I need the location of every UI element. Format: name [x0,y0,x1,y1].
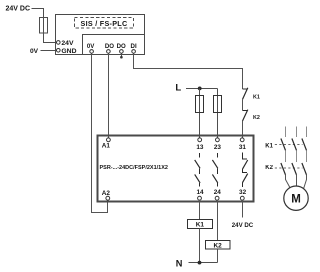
svg-text:24V DC: 24V DC [232,222,254,229]
coil K2 [206,241,231,250]
svg-text:K1: K1 [265,143,273,149]
coil K1 [188,220,213,229]
fuse F1 (24V DC feed) [40,18,48,34]
terminal DI of PLC [131,43,137,53]
wire DI to feedback chain [134,54,243,90]
wire L line [186,88,218,90]
terminal 14 [196,189,204,200]
contact K2 (NC, feedback loop) [243,110,260,138]
svg-text:DI: DI [131,43,137,50]
wire from 24V DC label to fuse [32,9,44,18]
svg-text:L: L [175,82,181,93]
wires between K1 and K2 contactor rows [285,150,287,161]
contactor K1 main contacts (3 x NO) [265,139,306,151]
three-phase line 3 [306,126,308,137]
wire 24 to coil K2 [217,200,219,241]
contactor K2 main contacts (3 x NO) [265,163,306,175]
relay contact 13-14 (two NO in series) [195,153,200,187]
fuse F3 (to terminal 23) [214,89,222,139]
PLC outer box [56,15,145,55]
svg-text:N: N [176,259,183,269]
PLC dashed box SIS / FS-PLC [75,18,134,29]
svg-text:PSR-...-24DC/FSP/2X1/1X2: PSR-...-24DC/FSP/2X1/1X2 [100,165,168,171]
wire 32 to 24V DC [242,200,244,218]
terminal A2 [102,190,111,200]
terminal A1 [102,138,111,149]
svg-text:SIS / FS-PLC: SIS / FS-PLC [81,19,128,28]
three-phase line 2 [296,126,298,137]
terminal 23 [214,138,222,151]
wire 0V to A2 [92,54,108,213]
svg-text:A2: A2 [102,190,111,197]
svg-text:K1: K1 [196,222,205,229]
wire 0V to GND terminal [41,50,57,52]
svg-text:14: 14 [196,189,204,196]
junction on N line [198,261,202,265]
svg-text:GND: GND [61,48,76,55]
three-phase line 1 [285,126,287,137]
wire coil K1 to N [199,229,201,263]
terminal 24V of PLC [57,40,74,47]
safety relay PSR box [98,136,254,202]
terminal 0V of PLC [87,43,95,53]
svg-text:24V: 24V [61,40,74,47]
terminal DO1 of PLC [105,43,114,53]
wire N line [189,262,218,264]
svg-text:0V: 0V [30,48,39,55]
svg-text:K2: K2 [213,242,222,249]
terminal 31 [239,138,247,151]
wire DO1 to A1 [108,54,110,139]
wire 14 to coil K1 [199,200,201,220]
contact K1 (NC, feedback loop) [243,88,260,111]
wires from contacts into motor [286,175,291,188]
svg-text:DO: DO [105,43,114,50]
svg-text:23: 23 [214,144,222,151]
stub below DO2 (unused output) [120,54,123,59]
svg-text:DO: DO [117,43,126,50]
svg-text:K2: K2 [253,115,260,121]
relay contact 23-24 (two NO in series) [212,153,217,187]
terminal 24 [214,189,222,200]
junction on L line [198,87,202,91]
fuse F2 (to terminal 13) [196,89,204,139]
PLC terminal-block divider [83,35,145,55]
terminal 32 [239,189,247,200]
svg-text:31: 31 [239,144,247,151]
wire coil K2 to N [217,249,219,263]
terminal DO2 of PLC [117,43,126,53]
svg-text:24: 24 [214,189,222,196]
svg-text:A1: A1 [102,142,111,149]
terminal GND of PLC [57,48,77,55]
svg-text:32: 32 [239,189,247,196]
svg-text:13: 13 [196,144,204,151]
svg-text:M: M [291,193,301,205]
wire fuse to 24V terminal [44,33,57,43]
svg-text:24V DC: 24V DC [6,6,31,13]
relay contact 31-32 (two NC in series) [243,152,248,187]
terminal 13 [196,138,204,151]
svg-text:0V: 0V [87,43,95,50]
svg-text:K2: K2 [265,165,273,171]
motor M [284,186,308,210]
svg-text:K1: K1 [253,95,260,101]
